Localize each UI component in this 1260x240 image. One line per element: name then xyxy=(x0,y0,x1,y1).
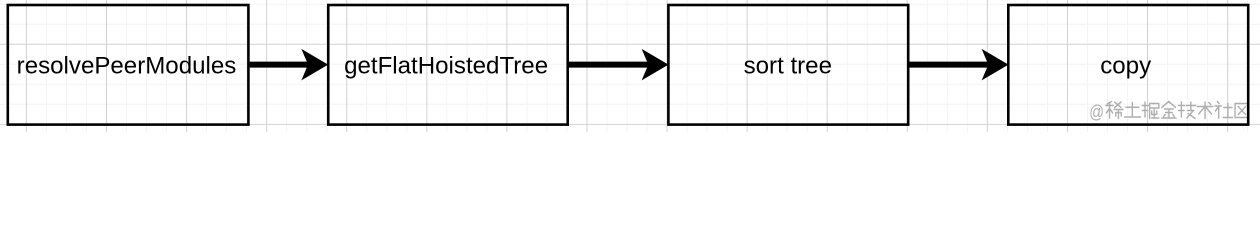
arrow from "sort tree" to "copy" xyxy=(909,50,1007,79)
svg-text:sort tree: sort tree xyxy=(744,53,832,80)
svg-text:getFlatHoistedTree: getFlatHoistedTree xyxy=(344,53,548,80)
svg-text:resolvePeerModules: resolvePeerModules xyxy=(17,53,237,80)
svg-text:@: @ xyxy=(1089,101,1104,122)
process box: getFlatHoistedTree xyxy=(328,5,567,125)
arrow from "resolvePeerModules" to "getFlatHoistedTree" xyxy=(250,50,327,79)
process box: resolvePeerModules xyxy=(8,5,249,125)
process box: sort tree xyxy=(668,5,908,125)
arrow from "getFlatHoistedTree" to "sort tree" xyxy=(569,50,668,79)
process box: copy xyxy=(1008,5,1248,125)
watermark: @稀土掘金技术社区 xyxy=(1089,101,1249,122)
svg-text:copy: copy xyxy=(1100,53,1151,80)
